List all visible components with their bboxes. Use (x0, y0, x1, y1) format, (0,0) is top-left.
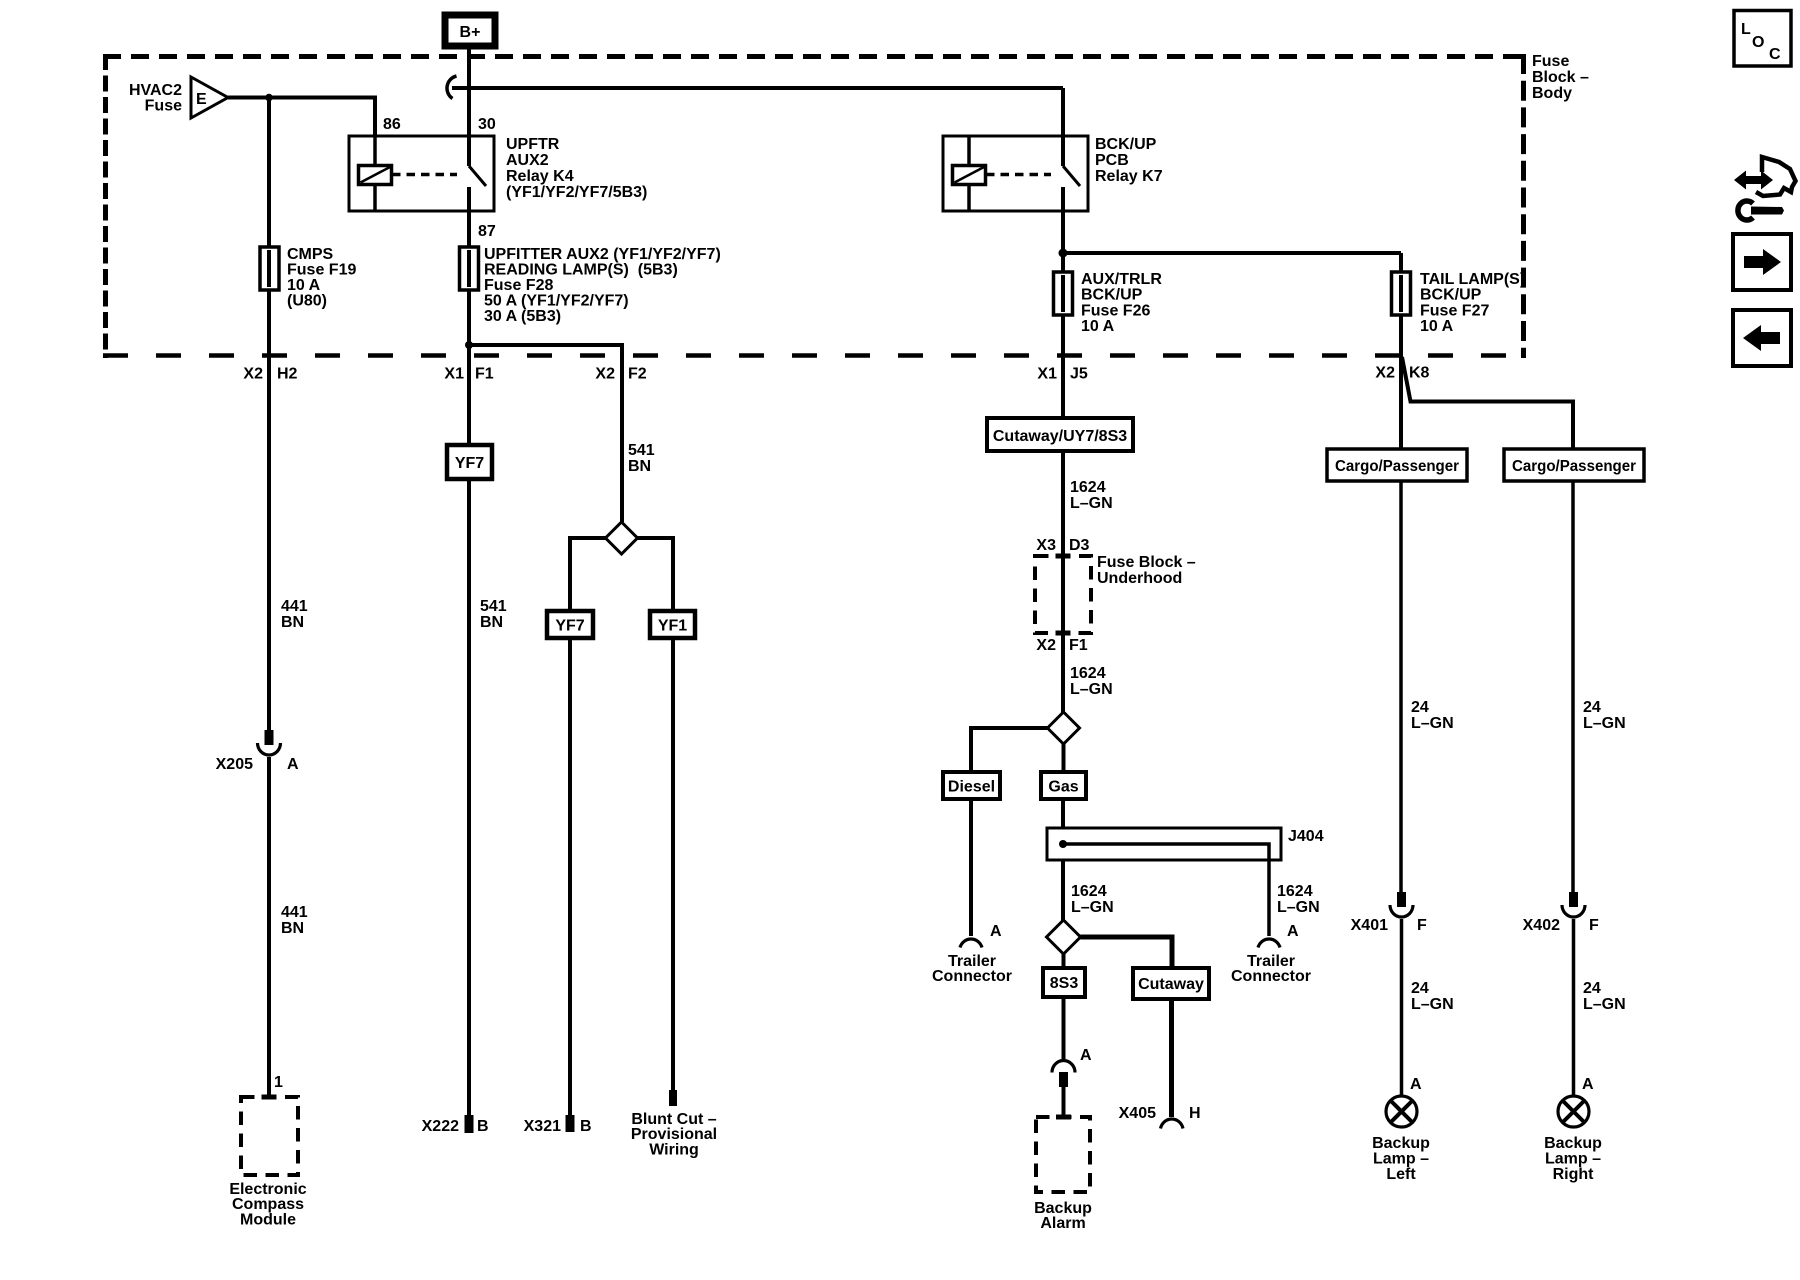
node dot inside J404 (1059, 840, 1067, 848)
svg-text:A: A (1287, 923, 1299, 940)
wire X402 to backup lamp right (1572, 919, 1576, 1095)
gas box (1041, 772, 1086, 799)
B+ terminal (445, 15, 495, 46)
backup alarm connector dome (1052, 1061, 1075, 1073)
svg-text:X2: X2 (595, 366, 615, 383)
wire diamond to gas (1062, 744, 1066, 772)
relay K4 pin 87 wire to fuse F28 (467, 187, 471, 247)
J404 connector box (1047, 828, 1281, 860)
svg-text:X2: X2 (243, 366, 263, 383)
svg-text:A: A (287, 756, 299, 773)
relay K7 box (943, 136, 1088, 211)
diamond splice diesel/gas (1048, 712, 1080, 744)
svg-text:X405: X405 (1119, 1105, 1156, 1122)
svg-text:B: B (580, 1118, 592, 1135)
trailer connector right dome (1258, 939, 1280, 948)
back arrow box (1733, 310, 1791, 366)
wire F28 to YF7 (467, 290, 471, 445)
wire cutaway to X405 (1169, 999, 1174, 1117)
svg-text:F1: F1 (475, 366, 494, 383)
svg-text:Fuse Block –Underhood: Fuse Block –Underhood (1097, 554, 1196, 587)
trailer connector left dome (960, 939, 982, 948)
wire YF7 lower to X321 (568, 638, 572, 1116)
8S3 code box (1043, 968, 1085, 997)
svg-text:B: B (477, 1118, 489, 1135)
wire diamond to YF1 (638, 538, 674, 611)
svg-text:YF7: YF7 (455, 455, 484, 472)
relay K7 pin 87 wire to fuse F26 (1061, 187, 1065, 272)
svg-text:BackupAlarm: BackupAlarm (1034, 1200, 1092, 1232)
svg-text:441BN: 441BN (281, 598, 308, 631)
wire YF7 to X222 (467, 479, 471, 1116)
relay K4 coil-switch dashed link (392, 173, 457, 177)
connector X401 pin (1397, 892, 1406, 907)
svg-text:B+: B+ (460, 24, 481, 41)
relay K4 switch blade (469, 166, 486, 186)
connector X402 pin (1569, 892, 1578, 907)
fuse F28 symbol (460, 247, 479, 290)
backup alarm connector pin (1059, 1072, 1068, 1087)
wire diamond to 8S3 box (1062, 954, 1066, 968)
fuse block body dashed box top border (103, 54, 1526, 59)
svg-text:X2: X2 (1036, 637, 1056, 654)
svg-text:H2: H2 (277, 366, 298, 383)
node branch dot F2 tap (465, 341, 473, 349)
relay K7 coil-switch dashed link (986, 173, 1051, 177)
svg-text:YF1: YF1 (658, 618, 687, 635)
wire underhood F1 to diamond (1061, 630, 1065, 713)
svg-text:541BN: 541BN (480, 598, 507, 631)
nav icon double arrow (1734, 171, 1773, 190)
electronic compass module dashed box (241, 1097, 298, 1175)
svg-text:X3: X3 (1036, 537, 1056, 554)
cutaway code box (1133, 968, 1209, 999)
svg-text:441BN: 441BN (281, 904, 308, 937)
ICONS (1733, 11, 1796, 367)
svg-text:Diesel: Diesel (948, 779, 995, 796)
svg-text:X402: X402 (1523, 917, 1560, 934)
cargo/passenger box right (1504, 449, 1644, 481)
svg-text:A: A (1080, 1047, 1092, 1064)
svg-text:F: F (1417, 917, 1427, 934)
wire F26 through J5 to cutaway box (1061, 315, 1065, 418)
wire underhood D3 through box (1061, 556, 1065, 633)
wire branch to F2 drop (469, 345, 622, 522)
wire gas to J404 (1061, 799, 1065, 828)
connector X321 end tick (566, 1115, 575, 1132)
diamond splice 8S3/cutaway (1047, 920, 1081, 954)
svg-text:Gas: Gas (1048, 779, 1078, 796)
svg-text:ElectronicCompassModule: ElectronicCompassModule (229, 1181, 306, 1228)
svg-text:Cutaway/UY7/8S3: Cutaway/UY7/8S3 (993, 428, 1127, 445)
YF1 code box (650, 611, 695, 638)
diamond splice F2 (606, 522, 638, 554)
cargo/passenger box left (1327, 449, 1467, 481)
fuse block underhood dashed box (1035, 556, 1091, 633)
svg-text:A: A (990, 923, 1002, 940)
wire to backup alarm (1062, 1087, 1066, 1117)
svg-text:F1: F1 (1069, 637, 1088, 654)
svg-text:Cargo/Passenger: Cargo/Passenger (1512, 458, 1636, 475)
svg-text:A: A (1582, 1076, 1594, 1093)
svg-text:X321: X321 (524, 1118, 561, 1135)
svg-text:D3: D3 (1069, 537, 1090, 554)
nav icon car outline (1756, 157, 1796, 196)
fuse block body dashed box bottom border (103, 353, 1526, 358)
fuse block body dashed box left border (103, 54, 108, 358)
connector X205 cup (258, 743, 281, 755)
wire cargo right to X402 (1571, 481, 1575, 892)
wire diamond to diesel (971, 728, 1048, 772)
fuse F26 symbol (1054, 272, 1073, 315)
fuse F19 symbol (260, 247, 279, 290)
svg-text:K8: K8 (1409, 365, 1430, 382)
node junction dot at CMPS tap (265, 94, 273, 102)
svg-text:F: F (1589, 917, 1599, 934)
wire K7 output to fuse F27 (1063, 251, 1401, 255)
cutaway/UY7/8S3 box (987, 418, 1133, 451)
wire K8 branch to cargo/passenger right (1402, 357, 1573, 449)
connector X401 cup (1390, 905, 1413, 917)
relay K7 switch blade (1063, 166, 1080, 186)
backup lamp left symbol (1386, 1096, 1417, 1127)
wire B+ down to relay K4 pin 30 (467, 46, 471, 166)
YF7 code box lower (547, 611, 593, 638)
connector X402 cup (1562, 905, 1585, 917)
wire triangle to pin 86 corner (228, 98, 375, 137)
wire X205 to compass module (267, 757, 271, 1098)
svg-text:F2: F2 (628, 366, 647, 383)
svg-text:X401: X401 (1351, 917, 1388, 934)
relay K7 coil (953, 166, 986, 185)
wire X401 to backup lamp left (1400, 919, 1404, 1095)
relay K4 coil (359, 166, 392, 185)
svg-text:30: 30 (478, 116, 496, 133)
svg-text:H: H (1189, 1105, 1201, 1122)
svg-text:A: A (1410, 1076, 1422, 1093)
wire diamond to cutaway code box (1081, 937, 1173, 968)
relay K4 box (349, 136, 494, 211)
svg-text:J404: J404 (1288, 828, 1324, 845)
loc legend box (1734, 11, 1791, 67)
wire J404 to diamond 8S3 (1061, 860, 1065, 921)
svg-text:L: L (1741, 21, 1751, 38)
connector X205 pin (265, 730, 274, 745)
svg-text:E: E (196, 91, 207, 108)
wire F27 to cargo/passenger left (1399, 315, 1403, 449)
svg-text:C: C (1769, 46, 1781, 63)
svg-text:O: O (1752, 34, 1764, 51)
backup alarm dashed box (1036, 1117, 1090, 1192)
svg-text:X205: X205 (216, 756, 253, 773)
svg-text:X1: X1 (1037, 366, 1057, 383)
svg-text:87: 87 (478, 223, 496, 240)
forward arrow box (1733, 234, 1791, 290)
svg-text:8S3: 8S3 (1050, 975, 1079, 992)
svg-text:X2: X2 (1375, 365, 1395, 382)
wire hop curl at start of bus (447, 76, 457, 99)
relay K4 coil pin wire 86 (373, 136, 377, 211)
wire CMPS drop to fuse F19 (267, 97, 271, 247)
connector X405 dome (1161, 1119, 1184, 1129)
wire to underhood fuse block (1061, 451, 1065, 556)
wire cargo left to X401 (1399, 481, 1403, 892)
svg-text:86: 86 (383, 116, 401, 133)
wire YF1 to blunt cut (671, 638, 675, 1092)
wire bus B+ to relay K7 pin 30 (452, 86, 1063, 90)
svg-text:BackupLamp –Right: BackupLamp –Right (1544, 1135, 1602, 1183)
diesel box (943, 772, 1000, 799)
wire 8S3 to connector A (1062, 997, 1066, 1061)
connector X222 end tick (465, 1115, 474, 1133)
HVAC2 fuse triangle E (191, 77, 228, 118)
wire F19 to X205 (267, 290, 271, 730)
svg-text:Cargo/Passenger: Cargo/Passenger (1335, 458, 1459, 475)
fuse F27 symbol (1392, 272, 1411, 315)
svg-text:X222: X222 (422, 1118, 459, 1135)
relay K7 pin 30 wire (1061, 88, 1065, 166)
nav icon wrench (1738, 201, 1753, 220)
svg-text:YF7: YF7 (555, 618, 584, 635)
svg-text:Cutaway: Cutaway (1138, 976, 1204, 993)
fuse block body dashed box right border (1521, 54, 1526, 358)
relay K7 coil pin wire (967, 136, 971, 211)
svg-text:541BN: 541BN (628, 442, 655, 475)
wire J404 internal bus (1063, 844, 1269, 936)
node junction dot relay K7 output (1059, 249, 1068, 258)
svg-text:1: 1 (274, 1074, 283, 1091)
svg-text:J5: J5 (1070, 366, 1088, 383)
svg-text:X1: X1 (444, 366, 464, 383)
wire diesel to trailer connector (969, 799, 973, 936)
blunt cut end tick (669, 1090, 677, 1106)
backup lamp right symbol (1558, 1096, 1589, 1127)
YF7 code box top (447, 445, 492, 479)
wire diamond to YF7 lower (570, 538, 606, 611)
